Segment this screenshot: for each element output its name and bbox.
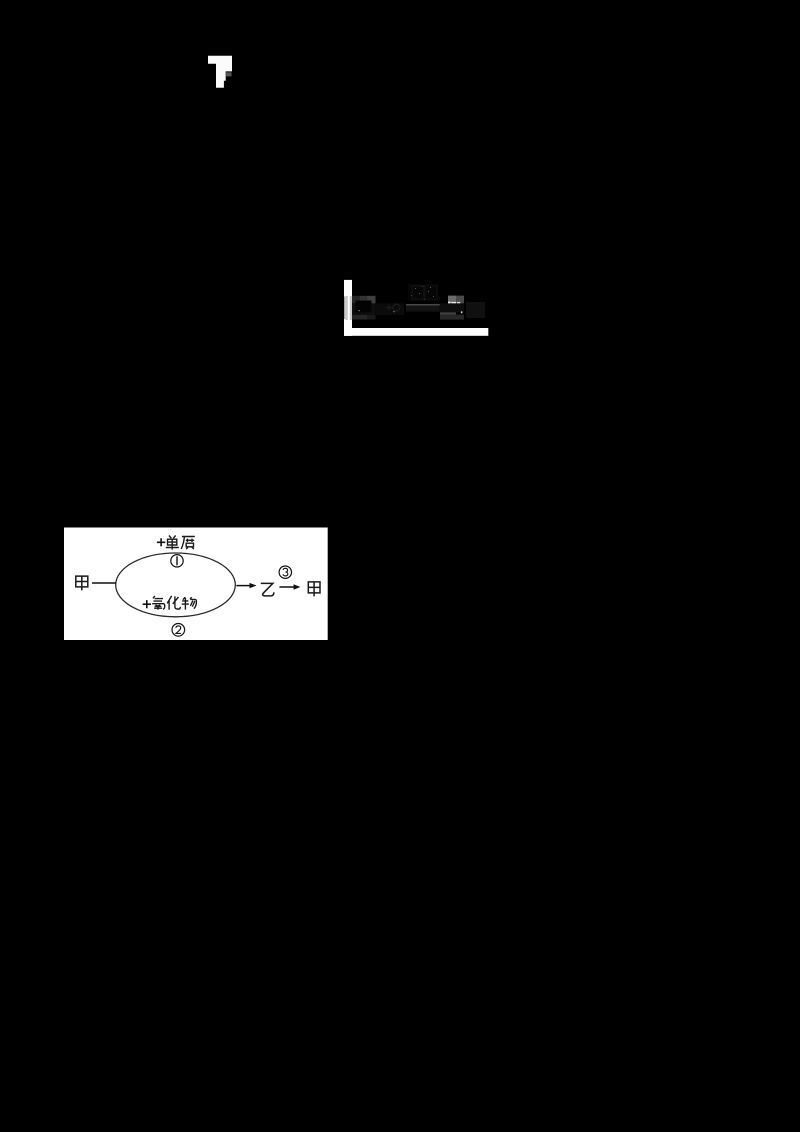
circled 2 bbox=[172, 624, 185, 637]
plus sign top bbox=[157, 538, 165, 546]
plus sign bottom bbox=[143, 600, 151, 608]
equation condition text zone bbox=[408, 284, 438, 301]
equation right gray block bbox=[448, 296, 456, 304]
equation glyph zone left bbox=[352, 303, 376, 315]
text 甲 left bbox=[76, 576, 88, 590]
diagram white box bbox=[64, 528, 328, 641]
text 质 bbox=[181, 537, 195, 550]
wire from 甲 to ellipse bbox=[92, 582, 116, 584]
text 化 bbox=[167, 596, 180, 610]
ellipse bbox=[116, 553, 236, 617]
equation bar gray strip 1 bbox=[344, 297, 345, 320]
equation far right blob bbox=[466, 302, 485, 318]
equation dark block row left bbox=[352, 296, 360, 304]
text 单 bbox=[166, 536, 179, 550]
text 乙 bbox=[261, 583, 274, 596]
circled 3 bbox=[279, 566, 291, 578]
equation faint +O2 bbox=[376, 303, 404, 315]
text 甲 right bbox=[308, 582, 320, 597]
logo fragment gray rect bbox=[226, 72, 232, 76]
equation arrow line bbox=[406, 304, 440, 306]
text 物 bbox=[182, 597, 197, 610]
equation bar gray strip 2 bbox=[350, 296, 352, 320]
arrow 1 bbox=[236, 585, 250, 587]
equation black blob Fe2O3 bbox=[356, 301, 372, 313]
arrow 2 bbox=[279, 586, 294, 588]
equation white horizontal bar bbox=[344, 328, 488, 336]
text 氧 bbox=[152, 596, 165, 610]
equation right white specks bbox=[448, 302, 450, 304]
equation right glyph zone bbox=[440, 303, 464, 312]
logo fragment white T shape bbox=[208, 56, 232, 88]
circled 1 bbox=[171, 555, 183, 567]
equation white vertical bar bbox=[344, 280, 352, 336]
